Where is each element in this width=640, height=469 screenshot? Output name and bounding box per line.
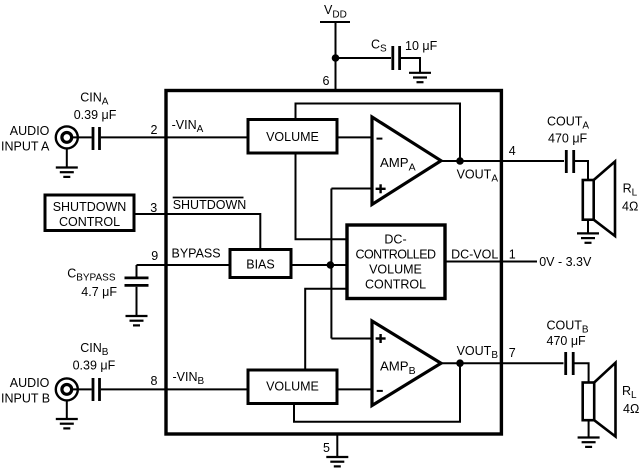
DC-controlled volume control block xyxy=(347,225,445,299)
svg-text:INPUT B: INPUT B xyxy=(1,392,50,406)
svg-text:VOUTB: VOUTB xyxy=(457,344,499,361)
SHUTDOWN CONTROL block xyxy=(45,195,134,231)
svg-text:CBYPASS: CBYPASS xyxy=(67,266,116,283)
svg-text:4: 4 xyxy=(509,144,516,158)
wire COUTA to speaker A xyxy=(575,161,588,180)
svg-text:5: 5 xyxy=(323,441,330,455)
ground at pin 5 xyxy=(326,457,348,466)
svg-text:-VINB: -VINB xyxy=(173,370,205,387)
svg-text:VOLUME: VOLUME xyxy=(266,380,319,394)
wire AMPB output to pin 7 and COUTB xyxy=(441,362,564,364)
svg-text:SHUTDOWN: SHUTDOWN xyxy=(173,198,247,212)
minus sign AMPB xyxy=(377,390,383,392)
svg-text:10 μF: 10 μF xyxy=(405,39,438,53)
svg-text:9: 9 xyxy=(151,249,158,263)
svg-text:RL: RL xyxy=(622,384,637,401)
connector jack input A xyxy=(56,126,78,148)
svg-text:4Ω: 4Ω xyxy=(623,402,639,416)
svg-text:COUTB: COUTB xyxy=(547,319,589,336)
svg-text:-VINA: -VINA xyxy=(172,118,204,135)
wire BIAS to bias node and DC volume control xyxy=(291,264,347,266)
svg-text:DC-VOL: DC-VOL xyxy=(451,248,498,262)
speaker RL A xyxy=(583,162,615,237)
svg-text:SHUTDOWN: SHUTDOWN xyxy=(53,200,127,214)
svg-text:VOUTA: VOUTA xyxy=(457,167,499,184)
IC boundary box U1 xyxy=(166,91,501,435)
plus sign AMPB xyxy=(376,334,386,343)
capacitor CBYPASS xyxy=(125,278,149,286)
ground at speaker A xyxy=(577,233,599,242)
node VDD junction xyxy=(332,54,340,62)
wire pin 9 to CBYPASS xyxy=(136,265,138,277)
wire shutdown control to pin 3 and BIAS xyxy=(134,214,260,250)
plus sign AMPA xyxy=(376,184,386,193)
wire VOLUME B to AMPB inverting input xyxy=(337,388,373,390)
svg-text:CONTROLLED: CONTROLLED xyxy=(356,248,436,262)
svg-text:CINB: CINB xyxy=(80,341,109,358)
svg-text:INPUT A: INPUT A xyxy=(1,140,50,154)
svg-text:1: 1 xyxy=(509,248,516,262)
ground at CBYPASS xyxy=(126,316,148,325)
svg-text:4.7 μF: 4.7 μF xyxy=(81,285,117,299)
wire jack A to CINA xyxy=(72,136,92,138)
capacitor COUTA xyxy=(566,150,573,173)
capacitor CINA xyxy=(93,127,100,150)
wire AMPA output to pin 4 and COUTA xyxy=(441,160,564,162)
svg-text:AUDIO: AUDIO xyxy=(10,376,50,390)
wire CINB to pin 8 and VOLUME B xyxy=(101,388,248,390)
wire VDD node to CS xyxy=(336,57,392,59)
svg-text:CONTROL: CONTROL xyxy=(365,278,426,292)
svg-text:RL: RL xyxy=(623,182,638,199)
wire AMPB plus input xyxy=(331,338,372,340)
wire bias node vertical xyxy=(330,189,332,339)
op-amp AMPB xyxy=(372,321,441,406)
svg-text:CINA: CINA xyxy=(80,91,109,108)
svg-text:8: 8 xyxy=(151,374,158,388)
svg-text:3: 3 xyxy=(150,201,157,215)
svg-text:6: 6 xyxy=(323,74,330,88)
node VOUTA xyxy=(456,157,464,165)
BIAS block xyxy=(230,250,291,278)
capacitor CINB xyxy=(93,378,100,401)
wire feedback B from VOUTB to VOLUME B bottom xyxy=(294,363,460,422)
ground at input A xyxy=(56,168,78,177)
connector jack input B xyxy=(56,378,78,400)
ground at speaker B xyxy=(578,438,600,447)
svg-text:0V - 3.3V: 0V - 3.3V xyxy=(539,255,592,269)
wire VOLUME B to DC volume control xyxy=(305,289,347,370)
ground at input B xyxy=(56,419,78,428)
wire AMPA plus input xyxy=(331,188,371,190)
VOLUME block A xyxy=(248,120,337,154)
wire VOLUME A to DC volume control xyxy=(296,153,348,239)
speaker RL B xyxy=(583,363,616,437)
svg-text:BYPASS: BYPASS xyxy=(172,247,221,261)
svg-text:0.39 μF: 0.39 μF xyxy=(73,359,116,373)
svg-text:AUDIO: AUDIO xyxy=(10,124,50,138)
svg-text:COUTA: COUTA xyxy=(547,114,589,131)
audio input A label xyxy=(1,124,50,154)
svg-text:VDD: VDD xyxy=(324,3,347,21)
node VOUTB xyxy=(456,359,464,367)
svg-text:DC-: DC- xyxy=(384,233,406,247)
wire feedback A from VOUTA to VOLUME A top xyxy=(296,104,461,162)
ground at CS xyxy=(409,73,431,82)
pin label SHUTDOWN with overline xyxy=(173,198,247,213)
svg-text:7: 7 xyxy=(509,346,516,360)
audio input B label xyxy=(1,376,50,406)
wire CBYPASS to ground xyxy=(136,287,138,316)
svg-text:BIAS: BIAS xyxy=(246,258,275,272)
wire VOLUME A to AMPA inverting input xyxy=(337,136,372,138)
wire pin 5 to ground xyxy=(336,435,338,457)
wire VDD to pin 6 xyxy=(335,22,337,91)
svg-text:470 μF: 470 μF xyxy=(547,334,587,348)
wire speaker B to ground xyxy=(588,420,590,437)
wire speaker A to ground xyxy=(587,220,589,233)
node bias junction xyxy=(327,261,335,269)
svg-text:CS: CS xyxy=(371,38,387,55)
wire jack B to ground xyxy=(66,401,68,419)
wire CINA to pin 2 and VOLUME A xyxy=(101,136,248,138)
VDD supply symbol xyxy=(320,3,350,22)
svg-text:0.39 μF: 0.39 μF xyxy=(74,108,117,122)
svg-text:2: 2 xyxy=(151,123,158,137)
svg-text:4Ω: 4Ω xyxy=(622,200,638,214)
wire DC-VOL pin 1 xyxy=(445,261,537,263)
op-amp AMPA xyxy=(372,117,441,205)
svg-text:470 μF: 470 μF xyxy=(548,132,588,146)
VOLUME block B xyxy=(248,370,337,404)
svg-text:VOLUME: VOLUME xyxy=(266,130,319,144)
wire jack A to ground xyxy=(66,149,68,168)
wire CS to ground xyxy=(401,58,420,73)
minus sign AMPA xyxy=(377,138,383,140)
wire bypass cap to pin 9 and BIAS xyxy=(137,264,231,266)
capacitor CS xyxy=(393,46,400,70)
wire jack B to CINB xyxy=(72,388,92,390)
capacitor COUTB xyxy=(566,352,574,375)
svg-text:CONTROL: CONTROL xyxy=(59,215,120,229)
wire COUTB to speaker B xyxy=(575,363,589,382)
svg-text:VOLUME: VOLUME xyxy=(369,263,422,277)
